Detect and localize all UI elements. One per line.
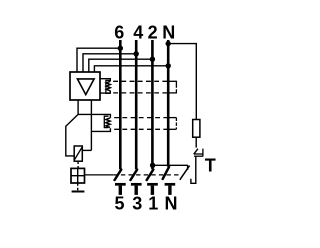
contact blade pole 6-5 <box>115 170 122 180</box>
wire box to pole 6 <box>77 48 119 72</box>
contact blade pole N <box>163 167 169 179</box>
contact blade pole 2-1 <box>147 170 154 180</box>
svg-text:4: 4 <box>133 22 143 42</box>
test resistor R <box>193 120 200 138</box>
winding W2 rail <box>104 116 108 127</box>
CT core 1 upper dashed line <box>113 80 169 82</box>
junction node pole N top <box>166 41 171 46</box>
pole line N <box>167 40 170 167</box>
pole line 2-1 <box>151 40 154 169</box>
trip coil diagonal <box>75 147 83 159</box>
svg-text:2: 2 <box>148 22 158 42</box>
wire N top to test resistor <box>168 44 196 120</box>
wire pole 1 to test button fixed contact <box>153 164 188 166</box>
CT core 2 right bracket <box>168 118 176 130</box>
mechanical link latch to anchor (dashed) <box>77 183 79 190</box>
junction node pole 4 <box>134 51 139 56</box>
pole line 6-5 <box>119 40 122 169</box>
winding W1 bottom entry wire <box>100 91 110 93</box>
test button cap bar 2 <box>194 155 203 157</box>
winding W2 bottom entry wire <box>91 128 110 131</box>
contact blade pole 4-3 <box>131 170 138 180</box>
CT core 2 upper dashed line <box>114 117 169 119</box>
svg-text:N: N <box>162 22 175 42</box>
wire box bottom left stub <box>77 100 79 114</box>
wire to trip coil right side <box>82 149 91 151</box>
latch mechanism box with cross <box>71 168 85 183</box>
mechanical linkage solid segment <box>85 174 114 176</box>
svg-text:3: 3 <box>132 194 142 214</box>
test button cap right side <box>202 149 204 157</box>
winding W1 rail <box>106 80 110 93</box>
svg-text:6: 6 <box>114 22 124 42</box>
junction node pole N lower <box>166 63 171 68</box>
mechanical linkage dashed segment <box>113 174 179 176</box>
wire box to pole 4 <box>83 54 135 72</box>
svg-text:T: T <box>205 155 216 175</box>
test button lower wire <box>191 156 196 183</box>
winding W2 coil zigzag <box>106 118 110 128</box>
bottom terminal 3 <box>131 184 142 195</box>
trip coil K1 box <box>74 146 82 161</box>
junction node pole 6 <box>118 46 123 51</box>
test button cap bar 1 <box>194 153 203 155</box>
electronics module outline <box>66 114 78 155</box>
wire electronics top to winding W2 <box>78 114 110 118</box>
trip relay triangle symbol <box>77 79 94 95</box>
wire box bottom right stub <box>90 100 92 150</box>
junction node pole 1 test tap <box>150 163 155 168</box>
test button fixed contact tick <box>187 165 189 170</box>
bottom terminal 1 <box>147 184 158 195</box>
winding W1 coil zigzag <box>106 81 110 91</box>
wire box to pole 2 <box>89 59 151 72</box>
test button plunger diagonal <box>194 149 198 155</box>
svg-text:1: 1 <box>148 194 158 214</box>
pole line 4-3 <box>135 40 138 169</box>
CT core 1 lower dashed line <box>113 92 169 94</box>
svg-text:5: 5 <box>114 194 124 214</box>
bottom terminal 5 <box>115 184 126 195</box>
bottom terminal N <box>165 184 176 195</box>
junction node pole 2 <box>150 57 155 62</box>
CT core 2 lower dashed line <box>114 128 169 130</box>
svg-text:N: N <box>165 194 178 214</box>
mechanical link coil to latch (dashed) <box>77 161 79 168</box>
test button blade <box>180 166 190 180</box>
anchor bar <box>72 191 85 193</box>
wire box to pole N <box>94 66 166 72</box>
CT core 1 right bracket <box>168 81 176 94</box>
wire resistor to test button <box>195 137 197 147</box>
trip relay U1 box <box>70 72 100 100</box>
winding W1 top entry wire <box>100 79 110 82</box>
